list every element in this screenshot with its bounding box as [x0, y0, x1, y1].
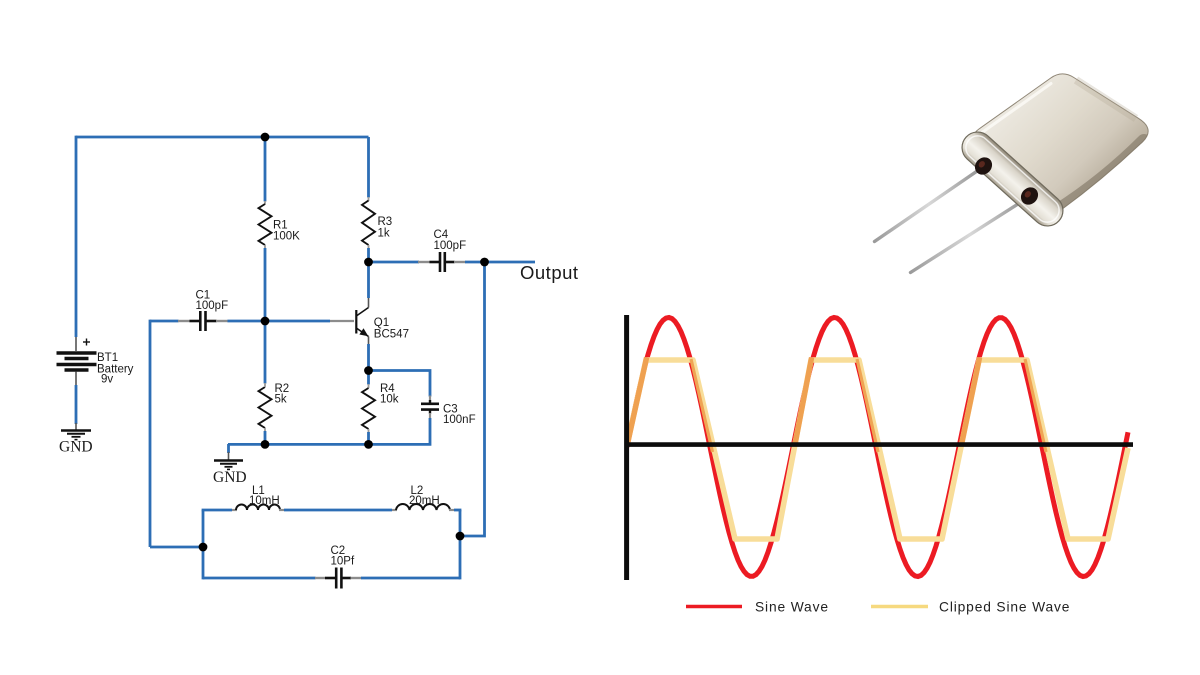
svg-text:Sine Wave: Sine Wave	[755, 600, 829, 615]
crystal hole 2	[1017, 184, 1041, 208]
junction R2/ground rail node	[261, 440, 270, 449]
junction Vcc/R1 node	[261, 133, 270, 142]
wire tank top right	[449, 509, 454, 511]
transistor Q1	[356, 297, 368, 345]
wire tank bottom right	[341, 577, 351, 580]
resistor R1	[259, 204, 272, 245]
wire emitter node to C3	[369, 371, 431, 397]
inductor L1	[236, 505, 280, 511]
resistor R3	[362, 201, 375, 246]
svg-text:R3: R3	[378, 216, 393, 228]
svg-text:5k: 5k	[275, 394, 287, 406]
svg-text:100K: 100K	[273, 231, 300, 243]
junction emitter node	[364, 366, 373, 375]
wire below battery	[75, 385, 78, 424]
junction collector node	[364, 258, 373, 267]
resistor R1 branch wire	[264, 137, 267, 202]
svg-text:100pF: 100pF	[196, 300, 229, 312]
inductor L2	[396, 504, 450, 510]
legend clipped sine wave	[871, 605, 928, 609]
crystal lead 1	[875, 167, 984, 242]
junction base node	[261, 317, 270, 326]
svg-text:10mH: 10mH	[249, 495, 280, 507]
crystal hole 1	[971, 154, 995, 178]
wire collector up to node	[367, 262, 370, 298]
wire C1 to base node	[206, 320, 217, 323]
svg-text:100pF: 100pF	[434, 240, 467, 252]
wire C3 bottom	[429, 410, 431, 414]
wire top rail	[76, 136, 369, 139]
battery BT1	[57, 337, 97, 386]
crystal body	[974, 74, 1149, 214]
clipped wave orange upslopes	[627, 358, 980, 447]
wire tank left vertical	[202, 510, 205, 579]
wire R2 top	[264, 321, 267, 384]
svg-text:9v: 9v	[101, 374, 113, 386]
capacitor C1	[200, 311, 205, 331]
wire R1 to base node	[264, 245, 266, 249]
junction output node	[480, 258, 489, 267]
wire R3 to collector node	[368, 245, 370, 249]
wire R2 bottom	[264, 428, 266, 432]
wire R4 bottom	[368, 429, 370, 433]
wire tank right vertical	[459, 510, 462, 579]
junction R4/ground rail node	[364, 440, 373, 449]
y axis	[624, 315, 629, 580]
svg-text:Q1: Q1	[374, 317, 389, 329]
svg-text:Clipped Sine Wave: Clipped Sine Wave	[939, 600, 1070, 615]
svg-text:GND: GND	[213, 469, 247, 486]
clipped wave orange downslopes	[691, 359, 1046, 452]
capacitor C3	[421, 404, 439, 410]
capacitor C2	[336, 568, 341, 589]
Q1 emitter arrow	[359, 328, 368, 336]
wire left battery drop	[75, 136, 78, 337]
svg-text:Output: Output	[520, 262, 579, 283]
wire base node to Q1 base	[265, 320, 330, 323]
ground symbol mid	[214, 452, 243, 469]
legend sine wave	[686, 605, 742, 609]
svg-text:10k: 10k	[380, 394, 399, 406]
crystal lead 2	[911, 197, 1030, 273]
svg-text:20mH: 20mH	[409, 495, 440, 507]
ground stem mid	[227, 444, 230, 453]
wire C4 to output node	[445, 261, 455, 264]
wire emitter to node	[367, 344, 370, 385]
crystal base plate	[956, 126, 1070, 233]
battery plus sign	[83, 339, 90, 346]
svg-text:GND: GND	[59, 439, 93, 456]
svg-text:1k: 1k	[378, 228, 390, 240]
svg-text:10Pf: 10Pf	[331, 556, 355, 568]
wire output drop	[460, 262, 485, 536]
clipped wave yellow	[627, 360, 1128, 539]
resistor R3 branch wire	[367, 137, 370, 198]
junction tank right node	[456, 532, 465, 541]
wire feed to tank	[150, 546, 203, 549]
resistor R2	[259, 387, 272, 428]
wire C1 left branch	[149, 320, 152, 547]
svg-text:100nF: 100nF	[443, 414, 476, 426]
wire collector node to C4	[369, 261, 420, 264]
junction tank left node	[199, 543, 208, 552]
wire between coils	[279, 509, 284, 511]
svg-text:BT1: BT1	[97, 352, 118, 364]
resistor R4	[362, 388, 375, 429]
component labels	[97, 216, 476, 568]
wire tank bottom left	[203, 577, 316, 580]
sine wave red	[627, 318, 1128, 577]
x axis	[625, 442, 1134, 447]
svg-text:BC547: BC547	[374, 328, 409, 340]
ground under battery	[61, 423, 91, 440]
capacitor C4	[440, 252, 445, 272]
wire tank top left	[202, 509, 232, 512]
